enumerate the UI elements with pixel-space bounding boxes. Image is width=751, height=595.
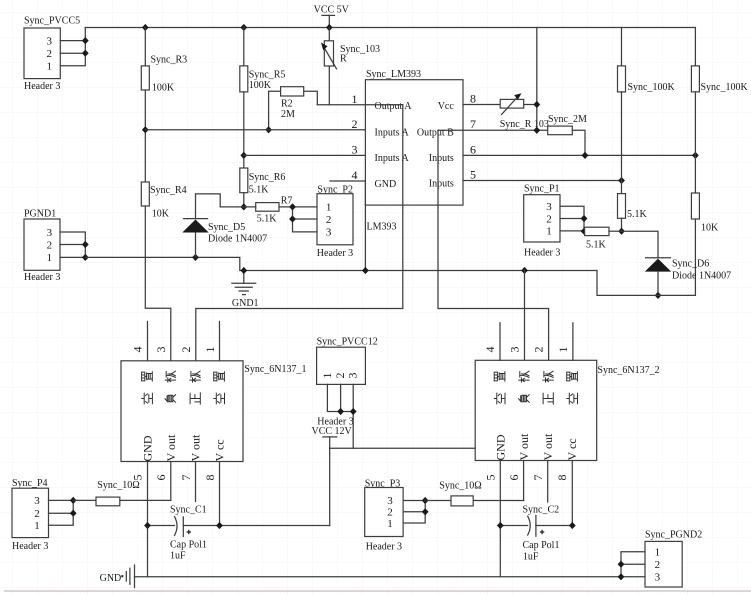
svg-text:PGND1: PGND1 xyxy=(24,208,56,219)
svg-text:3: 3 xyxy=(47,35,53,47)
svg-text:Sync_10Ω: Sync_10Ω xyxy=(439,481,481,492)
svg-text:V out: V out xyxy=(517,433,531,460)
power VCC 12V xyxy=(312,426,353,448)
svg-text:Cap Pol1: Cap Pol1 xyxy=(170,539,207,550)
svg-text:10K: 10K xyxy=(152,209,170,220)
svg-text:Sync_P1: Sync_P1 xyxy=(524,184,560,195)
diode Sync_D6 1N4007 xyxy=(645,258,731,296)
resistor 10K right column xyxy=(691,193,719,295)
svg-text:Inputs: Inputs xyxy=(429,179,454,190)
resistor 5.1K column xyxy=(618,194,648,232)
svg-text:2: 2 xyxy=(387,507,393,519)
wire opto2 pin4 stub free xyxy=(499,323,501,361)
svg-text:4: 4 xyxy=(131,347,145,353)
svg-text:1: 1 xyxy=(556,347,570,353)
svg-text:Header 3: Header 3 xyxy=(524,248,560,259)
svg-text:V out: V out xyxy=(541,433,555,460)
optocoupler U3 Sync_6N137_2 xyxy=(475,360,659,460)
wire opto1 pin6 stub xyxy=(170,462,172,501)
resistor R7 5.1K xyxy=(244,196,293,225)
svg-text:5.1K: 5.1K xyxy=(586,240,607,251)
svg-text:1: 1 xyxy=(320,373,334,379)
svg-text:Sync_PVCC5: Sync_PVCC5 xyxy=(24,15,80,26)
svg-text:Sync_R 103: Sync_R 103 xyxy=(500,119,549,130)
svg-text:V out: V out xyxy=(164,434,178,461)
header Sync_PVCC5 xyxy=(24,15,80,92)
wire bottom GND rail xyxy=(135,576,622,578)
node D5 bottom junction xyxy=(192,254,199,261)
power ground GND bottom left xyxy=(100,565,135,588)
svg-text:3: 3 xyxy=(154,347,168,353)
diode Sync_D5 1N4007 xyxy=(182,194,267,258)
header PGND1 xyxy=(24,208,60,283)
svg-text:8: 8 xyxy=(203,475,217,481)
svg-text:Sync_C2: Sync_C2 xyxy=(523,505,560,516)
svg-text:Header 3: Header 3 xyxy=(366,542,402,553)
svg-text:1: 1 xyxy=(34,520,40,532)
svg-text:Output B: Output B xyxy=(417,127,454,138)
wire pin2 input xyxy=(145,129,365,131)
svg-text:V cc: V cc xyxy=(565,438,579,460)
wire opto2 pin1 stub free xyxy=(572,323,574,361)
svg-text:3: 3 xyxy=(352,142,358,156)
node pin7 junction xyxy=(533,127,540,134)
wire 100K to 10K column xyxy=(694,92,696,193)
wire pin6 xyxy=(463,154,695,156)
svg-text:5.1K: 5.1K xyxy=(627,209,648,220)
svg-text:R: R xyxy=(340,54,347,65)
svg-text:1uF: 1uF xyxy=(523,551,539,562)
pin label 空置 (pin4) xyxy=(494,372,505,404)
svg-text:VCC 5V: VCC 5V xyxy=(314,5,350,16)
svg-text:7: 7 xyxy=(179,475,193,481)
svg-text:R2: R2 xyxy=(281,98,293,109)
svg-text:Header 3: Header 3 xyxy=(24,81,60,92)
op-amp U1 Sync_LM393 xyxy=(365,69,463,232)
svg-text:Sync_C1: Sync_C1 xyxy=(170,505,207,516)
resistor Sync_R6 5.1K xyxy=(240,168,286,195)
svg-text:Header 3: Header 3 xyxy=(24,272,60,283)
wire R5 bottom to R6 top xyxy=(243,92,245,168)
wire VCC12 rail to opto2 xyxy=(330,447,476,449)
wire PGND2 pin bus xyxy=(621,552,645,577)
wire opto1 pin7 stub free xyxy=(195,462,197,502)
svg-text:2: 2 xyxy=(532,347,546,353)
svg-text:1: 1 xyxy=(352,92,358,106)
wire opto2 pin7 stub free xyxy=(547,461,549,503)
capacitor C2 Sync_C2 Cap Pol1 1uF xyxy=(500,505,572,563)
svg-text:2M: 2M xyxy=(281,109,295,120)
resistor Sync_R4 10K xyxy=(141,182,186,220)
svg-text:GND1: GND1 xyxy=(232,298,259,309)
svg-text:4: 4 xyxy=(352,168,358,182)
svg-text:1uF: 1uF xyxy=(170,551,186,562)
wire pin4 GND stub xyxy=(330,181,365,271)
node PGND2 junctions xyxy=(618,561,625,568)
resistor Sync_10ohm left xyxy=(73,480,171,506)
wire opto1 pin5 GND column xyxy=(147,462,149,577)
pin label 负极 (pin3) xyxy=(165,371,176,402)
svg-text:Inputs: Inputs xyxy=(429,153,454,164)
wire opto1 pin8 Vcc stub xyxy=(219,462,221,526)
svg-text:3: 3 xyxy=(546,201,552,213)
wire GND1 to opto2 pin3 xyxy=(524,271,526,361)
svg-text:1: 1 xyxy=(203,347,217,353)
wire pin5 xyxy=(463,180,622,182)
svg-text:GND: GND xyxy=(494,434,508,460)
svg-text:100K: 100K xyxy=(152,83,175,94)
svg-text:8: 8 xyxy=(470,92,476,106)
svg-text:GND: GND xyxy=(141,435,155,461)
svg-text:2: 2 xyxy=(655,559,661,571)
pin label 空置 (pin4) xyxy=(142,372,153,404)
wire opto2 pin5 GND column xyxy=(499,461,501,577)
svg-text:Sync_D5: Sync_D5 xyxy=(208,222,245,233)
header Sync_PVCC12 xyxy=(317,337,378,428)
power VCC 5V xyxy=(314,5,350,28)
svg-text:1: 1 xyxy=(387,518,393,530)
svg-text:2: 2 xyxy=(352,117,358,131)
svg-text:6: 6 xyxy=(154,475,168,481)
svg-text:Header 3: Header 3 xyxy=(317,248,353,259)
header Sync_P1 xyxy=(524,184,561,259)
svg-text:Vcc: Vcc xyxy=(438,101,455,112)
svg-text:3: 3 xyxy=(655,571,661,583)
svg-text:Sync_PGND2: Sync_PGND2 xyxy=(645,529,702,540)
node pin5 junction xyxy=(618,177,625,184)
node R3/R4 to pin2 junction xyxy=(142,126,149,133)
svg-text:3: 3 xyxy=(508,347,522,353)
node C2 junctions xyxy=(497,522,504,529)
svg-text:Diode 1N4007: Diode 1N4007 xyxy=(208,234,267,245)
node PGND1 junctions xyxy=(82,241,89,248)
wire pin3 input xyxy=(244,154,366,156)
svg-text:3: 3 xyxy=(387,495,393,507)
pin label 负极 (pin3) xyxy=(519,371,530,402)
wire 5.1K junction to D6 xyxy=(622,231,659,258)
resistor Sync_100K right column xyxy=(691,28,748,94)
svg-text:3: 3 xyxy=(326,227,332,239)
svg-text:2: 2 xyxy=(179,347,193,353)
wire P2 pin bus xyxy=(293,207,318,232)
svg-text:3: 3 xyxy=(47,227,53,239)
wire P3 pin bus xyxy=(403,501,425,524)
svg-text:3: 3 xyxy=(346,373,360,379)
node R5/R6 to pin3 junction xyxy=(240,152,247,159)
node C1 junctions xyxy=(144,522,151,529)
wire P1 pin bus xyxy=(560,206,585,231)
svg-text:Sync_6N137_1: Sync_6N137_1 xyxy=(244,364,306,375)
wire R6 bottom stub xyxy=(243,193,245,207)
wire pin1 input xyxy=(317,104,403,106)
wire PVCC12 pin bus xyxy=(327,384,353,448)
capacitor C1 Sync_C1 Cap Pol1 1uF xyxy=(148,505,330,562)
svg-text:4: 4 xyxy=(483,347,497,353)
wire 100K to 5.1K column xyxy=(621,92,623,194)
header Sync_P3 xyxy=(365,479,403,553)
svg-text:2: 2 xyxy=(546,213,552,225)
potentiometer Sync_103 R xyxy=(321,28,380,105)
node R6/R7 junction xyxy=(240,203,247,210)
svg-text:2: 2 xyxy=(47,239,53,251)
wire VCC5 top rail xyxy=(85,27,695,29)
svg-text:Sync_R3: Sync_R3 xyxy=(151,54,188,65)
wire Vcc riser to top rail xyxy=(536,28,538,131)
wire PGND1 to D5 and GND1 xyxy=(85,257,695,295)
node pin8 junction xyxy=(533,101,540,108)
svg-text:1: 1 xyxy=(326,202,332,214)
node P1 junctions xyxy=(581,215,588,222)
svg-text:1: 1 xyxy=(655,547,661,559)
svg-text:1: 1 xyxy=(47,61,53,73)
node 2M to pin6 junction xyxy=(582,152,589,159)
node P2 junctions xyxy=(289,203,296,210)
header Sync_PGND2 xyxy=(645,529,702,587)
resistor 5.1K at P1 xyxy=(585,227,622,250)
svg-text:100K: 100K xyxy=(249,80,272,91)
node VCC5 junctions xyxy=(142,24,149,31)
wire PVCC5 pin bus xyxy=(60,28,85,66)
resistor Sync_10ohm right xyxy=(425,481,523,506)
svg-text:Sync_100K: Sync_100K xyxy=(701,82,749,93)
svg-text:Sync_PVCC12: Sync_PVCC12 xyxy=(317,337,378,348)
svg-text:5: 5 xyxy=(470,167,476,181)
header Sync_P4 xyxy=(12,478,49,552)
ground GND1 symbol xyxy=(232,271,259,309)
svg-text:5: 5 xyxy=(484,475,498,481)
svg-text:2: 2 xyxy=(326,214,332,226)
svg-text:GND: GND xyxy=(375,179,397,190)
svg-text:Header 3: Header 3 xyxy=(12,541,48,552)
wire output A vertical to opto1 pin2 xyxy=(196,105,403,361)
svg-text:Sync_D6: Sync_D6 xyxy=(672,258,709,269)
node 5.1K bottom junction xyxy=(618,228,625,235)
node GND1 junctions on net xyxy=(240,267,247,274)
svg-text:Sync_2M: Sync_2M xyxy=(548,114,587,125)
potentiometer Sync_R 103 xyxy=(500,93,549,130)
node P3 junctions xyxy=(422,497,429,504)
resistor R2 2M xyxy=(269,87,318,130)
optocoupler U2 Sync_6N137_1 xyxy=(121,361,307,462)
svg-text:5.1K: 5.1K xyxy=(249,184,270,195)
svg-text:V cc: V cc xyxy=(213,439,227,461)
node R2 left lead junction xyxy=(265,126,272,133)
node PVCC12 junctions xyxy=(337,408,344,415)
resistor Sync_R3 100K xyxy=(141,28,187,94)
svg-text:Sync_R6: Sync_R6 xyxy=(249,172,286,183)
svg-text:R7: R7 xyxy=(281,196,293,207)
wire opto1 pin1 stub free xyxy=(219,322,221,361)
wire VCC12 down to C1 line xyxy=(329,448,331,525)
svg-text:Sync_10Ω: Sync_10Ω xyxy=(97,480,139,491)
svg-text:Sync_R4: Sync_R4 xyxy=(150,185,187,196)
resistor Sync_100K left column xyxy=(618,28,676,94)
svg-text:1: 1 xyxy=(546,226,552,238)
svg-text:2: 2 xyxy=(47,48,53,60)
wire R4 bottom to opto1 pin3 xyxy=(145,206,171,361)
svg-text:Sync_6N137_2: Sync_6N137_2 xyxy=(597,365,659,376)
wire pin7 Output B to 2M xyxy=(438,129,548,131)
node P4 junctions xyxy=(70,497,77,504)
svg-text:Cap Pol1: Cap Pol1 xyxy=(523,540,560,551)
svg-text:3: 3 xyxy=(34,495,40,507)
svg-text:Sync_100K: Sync_100K xyxy=(628,82,676,93)
bottom border line xyxy=(4,590,751,592)
wire opto1 pin4 stub free xyxy=(147,322,149,361)
wire opto2 pin8 Vcc stub xyxy=(571,461,573,526)
svg-text:LM393: LM393 xyxy=(367,221,397,232)
wire PGND1 pin bus xyxy=(60,232,85,257)
svg-text:Inputs A: Inputs A xyxy=(375,127,410,138)
resistor Sync_R5 100K xyxy=(240,28,286,92)
svg-text:Output A: Output A xyxy=(375,101,413,112)
svg-text:V out: V out xyxy=(189,434,203,461)
resistor Sync_2M xyxy=(548,114,587,155)
svg-text:6: 6 xyxy=(507,475,521,481)
wire R3 bottom to R4 top xyxy=(144,90,146,182)
node pin6 right junction xyxy=(692,152,699,159)
svg-text:10K: 10K xyxy=(701,223,719,234)
svg-text:Diode 1N4007: Diode 1N4007 xyxy=(672,270,731,281)
wire D5 to R6/R7 junction xyxy=(196,194,244,207)
svg-text:7: 7 xyxy=(531,475,545,481)
wire pin8 Vcc xyxy=(463,104,537,106)
svg-text:Inputs A: Inputs A xyxy=(375,153,410,164)
node D6 bottom junction xyxy=(655,292,662,299)
svg-text:Sync_LM393: Sync_LM393 xyxy=(366,69,421,80)
svg-text:1: 1 xyxy=(47,252,53,264)
svg-text:6: 6 xyxy=(470,142,476,156)
svg-text:Sync_P4: Sync_P4 xyxy=(12,478,48,489)
pin label 空置 (pin1) xyxy=(567,372,578,404)
wire P4 pin bus xyxy=(49,500,74,525)
svg-text:VCC 12V: VCC 12V xyxy=(312,426,353,437)
pin label 正极 (pin2) xyxy=(190,371,200,404)
svg-text:8: 8 xyxy=(555,475,569,481)
header Sync_P2 xyxy=(317,185,353,259)
svg-text:GND: GND xyxy=(100,573,122,584)
svg-text:2: 2 xyxy=(34,508,40,520)
pin label 正极 (pin2) xyxy=(543,371,553,404)
wire opto2 pin6 stub xyxy=(523,461,525,501)
node PVCC5 pin junctions xyxy=(82,37,89,44)
svg-text:7: 7 xyxy=(470,117,476,131)
svg-text:5.1K: 5.1K xyxy=(257,214,278,225)
pin label 空置 (pin1) xyxy=(214,372,225,404)
wire output B vertical to opto2 pin2 xyxy=(438,130,549,360)
